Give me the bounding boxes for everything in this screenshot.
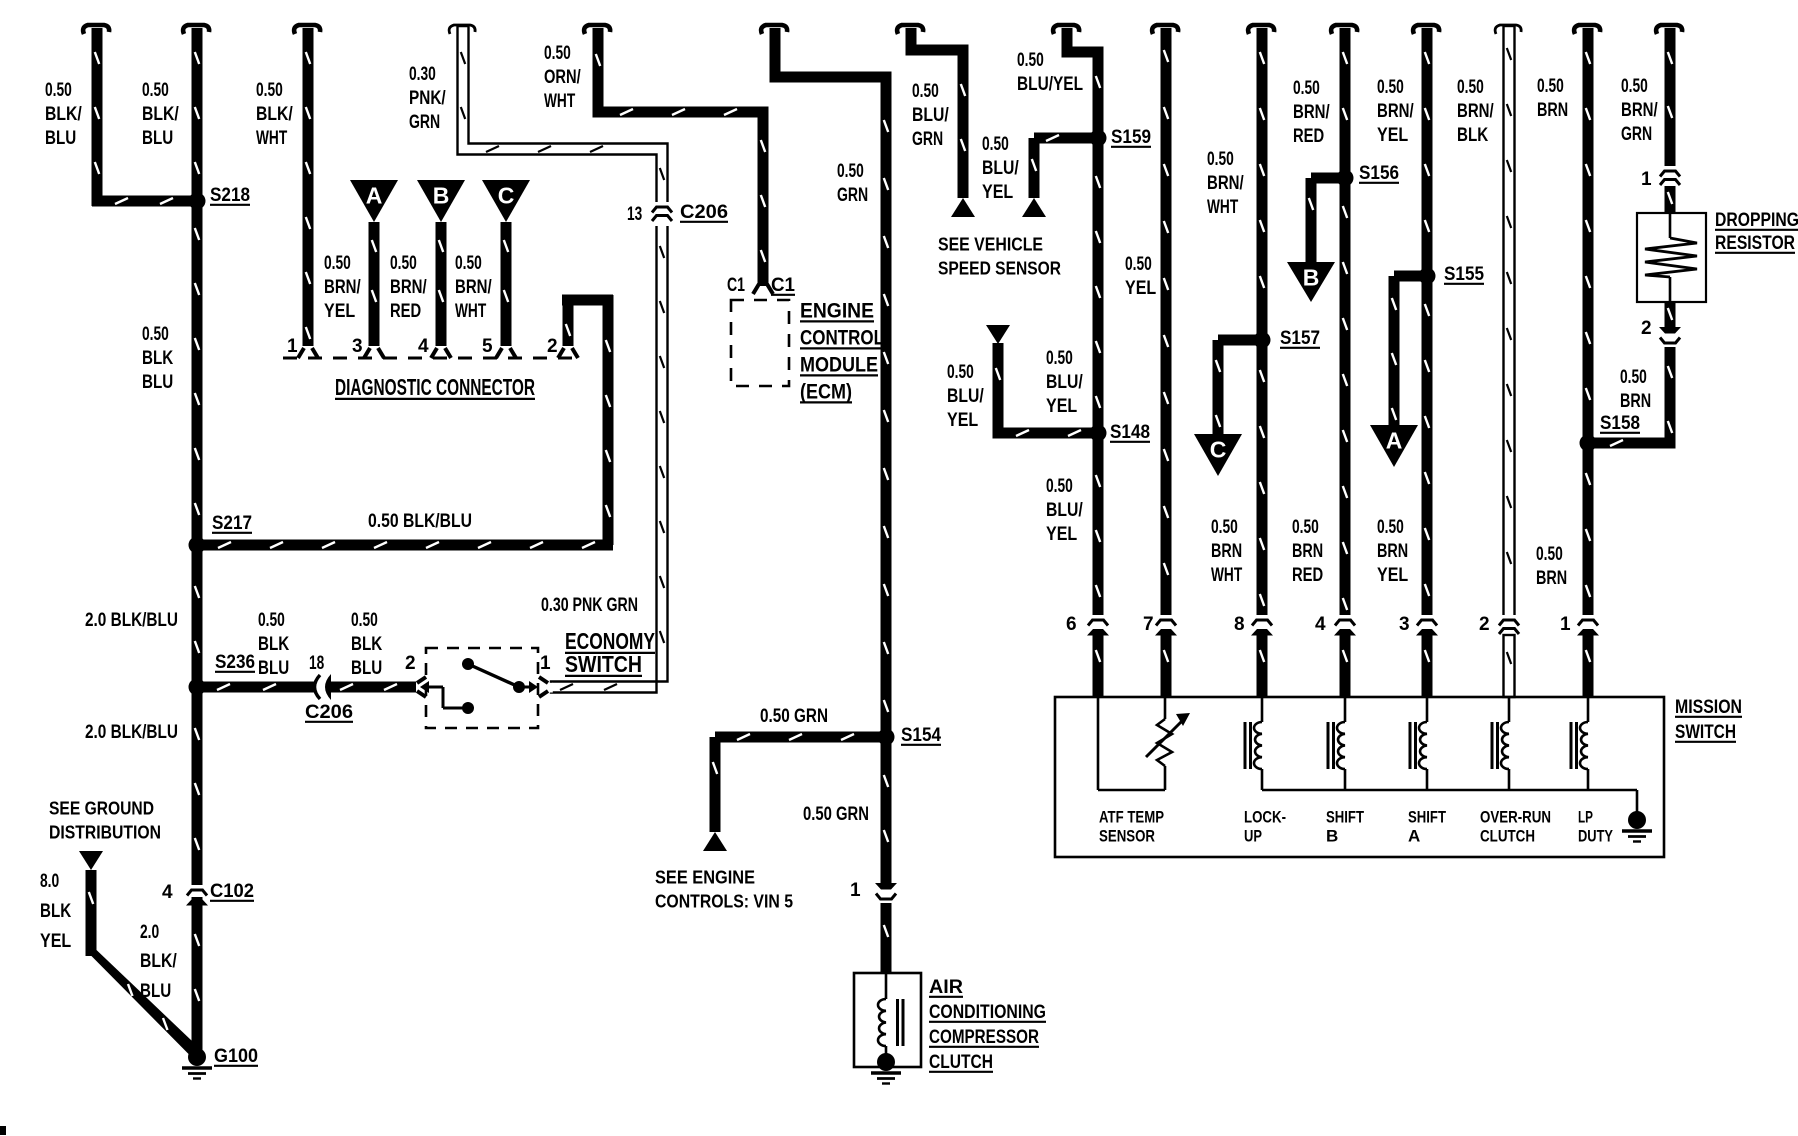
pin labels diagnostic	[287, 336, 558, 357]
wire 0.50 BRN/RED pin 8	[1248, 25, 1274, 620]
splice S148	[1090, 422, 1151, 443]
wire 0.50 BRN/WHT pin 7	[1152, 25, 1178, 620]
over-run clutch solenoid	[1492, 697, 1509, 790]
svg-text:BRN: BRN	[1377, 541, 1408, 562]
svg-text:0.50 GRN: 0.50 GRN	[760, 706, 828, 727]
svg-text:BRN: BRN	[1536, 568, 1567, 589]
wire diagnostic pin 3 stem	[364, 222, 384, 358]
triangle B	[417, 180, 465, 222]
svg-text:0.50 GRN: 0.50 GRN	[803, 804, 869, 825]
svg-text:WHT: WHT	[544, 91, 575, 112]
label 0.50 BLK BLU (left of C206)	[258, 610, 289, 679]
shift A solenoid	[1410, 697, 1427, 790]
svg-text:G100: G100	[214, 1046, 258, 1067]
svg-text:C1: C1	[727, 275, 745, 296]
ECM dashed box	[731, 300, 789, 386]
connector mission pin 4	[1315, 614, 1357, 636]
label 2.0 BLK/BLU (bottom)	[140, 922, 177, 1002]
wire 8.0 BLK/YEL	[86, 870, 203, 1057]
svg-text:0.50: 0.50	[1457, 77, 1484, 98]
label SEE ENGINE CONTROLS: VIN 5	[655, 866, 793, 911]
svg-text:BLU/: BLU/	[1046, 500, 1083, 521]
label SEE GROUND DISTRIBUTION	[49, 797, 161, 842]
label LOCK-UP	[1244, 807, 1286, 845]
wire riser to diagnostic pin 2	[558, 295, 614, 546]
svg-text:BRN/: BRN/	[324, 277, 361, 298]
connector mission pin 3	[1399, 614, 1439, 636]
svg-text:SEE ENGINE: SEE ENGINE	[655, 866, 755, 887]
label 0.50 BLK/BLU (far left)	[45, 80, 82, 149]
svg-text:0.50: 0.50	[1292, 517, 1319, 538]
svg-text:0.50: 0.50	[947, 362, 974, 383]
svg-text:YEL: YEL	[982, 182, 1014, 203]
svg-text:BRN: BRN	[1292, 541, 1323, 562]
svg-text:2.0: 2.0	[140, 922, 159, 943]
svg-text:RED: RED	[1293, 126, 1324, 147]
wire 0.50 BRN/BLK pin 3	[1413, 25, 1439, 620]
svg-text:SEE GROUND: SEE GROUND	[49, 797, 154, 818]
connector C1 ECM	[727, 275, 795, 296]
svg-text:WHT: WHT	[455, 301, 486, 322]
splice S156	[1337, 163, 1400, 187]
svg-text:1: 1	[1641, 169, 1652, 190]
svg-text:WHT: WHT	[1207, 197, 1238, 218]
svg-text:S155: S155	[1444, 264, 1484, 285]
svg-text:BLK/: BLK/	[256, 104, 293, 125]
svg-text:BRN/: BRN/	[1207, 173, 1244, 194]
svg-text:S157: S157	[1280, 328, 1320, 349]
svg-text:AIR: AIR	[929, 977, 963, 998]
page edge mark	[0, 1126, 6, 1135]
label 0.50 BLK BLU mid	[142, 324, 173, 393]
svg-text:0.50: 0.50	[1537, 76, 1564, 97]
svg-text:0.50: 0.50	[1211, 517, 1238, 538]
svg-text:RED: RED	[1292, 565, 1323, 586]
svg-text:RED: RED	[390, 301, 421, 322]
label ECONOMY SWITCH	[565, 628, 655, 677]
connector dropping resistor pin 2	[1641, 318, 1682, 348]
svg-text:BLU: BLU	[142, 128, 173, 149]
triangle ground distribution	[79, 851, 103, 870]
svg-text:WHT: WHT	[1211, 565, 1242, 586]
svg-text:BLK: BLK	[351, 634, 382, 655]
svg-text:BRN/: BRN/	[390, 277, 427, 298]
svg-text:0.50: 0.50	[1207, 149, 1234, 170]
svg-text:ENGINE: ENGINE	[800, 299, 874, 322]
svg-text:SENSOR: SENSOR	[1099, 826, 1155, 845]
svg-text:B: B	[1303, 265, 1320, 291]
svg-text:0.50: 0.50	[324, 253, 351, 274]
label DIAGNOSTIC CONNECTOR	[335, 374, 535, 400]
svg-text:B: B	[1326, 826, 1338, 845]
svg-text:SEE VEHICLE: SEE VEHICLE	[938, 233, 1043, 254]
label 0.50 BRN WHT (pin8 lower)	[1211, 517, 1242, 586]
svg-text:LOCK-: LOCK-	[1244, 807, 1286, 826]
svg-text:C1: C1	[771, 275, 795, 296]
lock-up solenoid	[1245, 697, 1262, 790]
label MISSION SWITCH	[1675, 697, 1742, 743]
svg-text:S154: S154	[901, 725, 941, 746]
svg-text:MODULE: MODULE	[800, 353, 878, 376]
label 0.50 BLU/GRN	[912, 81, 949, 150]
svg-text:CONTROL: CONTROL	[800, 326, 884, 349]
svg-text:0.50: 0.50	[1377, 77, 1404, 98]
wire 0.50 ORN/WHT to ECM	[584, 25, 768, 286]
svg-text:BLK: BLK	[40, 901, 71, 922]
svg-text:BLK/: BLK/	[140, 951, 177, 972]
wire 0.50 BLK/BLU S217 horizontal run	[197, 540, 613, 551]
svg-text:CLUTCH: CLUTCH	[929, 1052, 993, 1073]
svg-text:C206: C206	[305, 702, 353, 723]
connector mission pin 8	[1234, 614, 1274, 636]
svg-text:13: 13	[627, 204, 642, 225]
label 0.50 BRN (dropping)	[1620, 367, 1651, 412]
label 0.50 BLU/YEL (to pin 6)	[1046, 476, 1083, 545]
svg-text:6: 6	[1066, 614, 1077, 635]
label 0.50 BRN/RED pin4	[390, 253, 427, 322]
dropping resistor R	[1637, 213, 1706, 302]
economy switch contacts	[420, 658, 538, 714]
svg-text:BLU/: BLU/	[912, 105, 949, 126]
wire 0.50 BRN pin 1	[1574, 25, 1600, 620]
svg-text:8: 8	[1234, 614, 1245, 635]
svg-text:0.50: 0.50	[544, 43, 571, 64]
splice S155	[1419, 264, 1485, 285]
wire stub S157 to C	[1213, 335, 1263, 435]
svg-text:0.50: 0.50	[1017, 50, 1044, 71]
svg-text:S159: S159	[1111, 127, 1151, 148]
connector mission pin 1	[1560, 614, 1600, 636]
wire 0.50 BLK/BLU S236 to C206	[197, 682, 316, 693]
svg-text:GRN: GRN	[912, 129, 943, 150]
triangle see engine controls	[703, 832, 727, 851]
svg-text:BRN: BRN	[1620, 391, 1651, 412]
svg-text:BLU: BLU	[140, 981, 171, 1002]
svg-text:0.50: 0.50	[258, 610, 285, 631]
svg-text:SWITCH: SWITCH	[565, 651, 642, 677]
wire stub S155 to A	[1389, 271, 1428, 426]
label 0.50 BRN/RED (top)	[1293, 78, 1330, 147]
wire 0.50 GRN to engine controls	[710, 732, 887, 833]
svg-text:C102: C102	[210, 881, 254, 902]
connector mission pin 7	[1143, 614, 1178, 636]
svg-text:RESISTOR: RESISTOR	[1715, 233, 1795, 254]
pin 1 label economy switch	[540, 653, 551, 674]
svg-text:BLU: BLU	[142, 372, 173, 393]
ground G100	[182, 1046, 258, 1079]
svg-text:0.50: 0.50	[256, 80, 283, 101]
svg-text:4: 4	[1315, 614, 1326, 635]
label 0.50 BRN/WHT pin5	[455, 253, 492, 322]
splice S159	[1090, 127, 1152, 148]
triangle B to diagnostic	[1287, 262, 1335, 302]
svg-text:ATF TEMP: ATF TEMP	[1099, 807, 1164, 826]
label SEE VEHICLE SPEED SENSOR	[938, 233, 1061, 278]
svg-text:GRN: GRN	[409, 112, 440, 133]
svg-text:3: 3	[352, 336, 363, 357]
label LP DUTY	[1578, 807, 1613, 845]
svg-text:YEL: YEL	[1046, 524, 1078, 545]
svg-text:SPEED SENSOR: SPEED SENSOR	[938, 257, 1061, 278]
svg-text:BRN: BRN	[1537, 100, 1568, 121]
mission switch box	[1055, 697, 1664, 857]
svg-text:1: 1	[540, 653, 551, 674]
label 0.50 BRN (top)	[1537, 76, 1568, 121]
LP duty solenoid	[1571, 697, 1588, 790]
economy switch dashed box	[426, 648, 538, 728]
wire 0.50 BLK/WHT	[294, 25, 320, 358]
splice S218	[189, 185, 251, 210]
wire 0.50 BLU/YEL stub to S159	[1029, 133, 1099, 199]
svg-text:SWITCH: SWITCH	[1675, 722, 1736, 743]
svg-text:5: 5	[482, 336, 493, 357]
svg-text:CLUTCH: CLUTCH	[1480, 826, 1535, 845]
shift B solenoid	[1328, 697, 1345, 790]
svg-text:2.0 BLK/BLU: 2.0 BLK/BLU	[85, 610, 178, 631]
connector C206 pin 13	[627, 202, 728, 226]
label 0.50 BRN/YEL pin3	[324, 253, 361, 322]
svg-text:BRN/: BRN/	[1457, 101, 1494, 122]
svg-text:GRN: GRN	[837, 185, 868, 206]
label 2.0 BLK/BLU lower	[85, 722, 178, 743]
svg-text:BRN/: BRN/	[1621, 100, 1658, 121]
svg-text:0.50: 0.50	[912, 81, 939, 102]
label 0.30 PNK GRN (economy)	[541, 595, 638, 616]
label 0.50 BLK/BLU (wire bus)	[142, 80, 179, 149]
svg-text:YEL: YEL	[1046, 396, 1078, 417]
svg-text:0.50: 0.50	[1621, 76, 1648, 97]
label 0.50 GRN (upper)	[837, 161, 868, 206]
svg-text:7: 7	[1143, 614, 1154, 635]
svg-text:0.50: 0.50	[142, 80, 169, 101]
svg-text:OVER-RUN: OVER-RUN	[1480, 807, 1551, 826]
svg-text:2: 2	[405, 653, 416, 674]
svg-text:0.50: 0.50	[455, 253, 482, 274]
splice S154	[878, 725, 942, 746]
triangle C to diagnostic	[1194, 434, 1242, 476]
label 0.50 BRN/BLK (top)	[1457, 77, 1494, 146]
label 0.50 BLK/WHT	[256, 80, 293, 149]
wire outlined pin 2 over-run	[1495, 25, 1521, 618]
svg-text:0.50: 0.50	[1046, 348, 1073, 369]
wire into dropping resistor	[1665, 186, 1676, 213]
A/C clutch box	[854, 973, 921, 1067]
label 0.30 PNK/GRN	[409, 64, 446, 133]
svg-text:BLU: BLU	[351, 658, 382, 679]
svg-text:BLK/: BLK/	[45, 104, 82, 125]
label SHIFT B	[1326, 807, 1364, 845]
svg-text:0.50: 0.50	[142, 324, 169, 345]
svg-text:B: B	[433, 183, 450, 209]
svg-text:DISTRIBUTION: DISTRIBUTION	[49, 821, 161, 842]
label AIR CONDITIONING COMPRESSOR CLUTCH	[929, 977, 1046, 1073]
svg-text:YEL: YEL	[40, 931, 72, 952]
svg-text:1: 1	[850, 880, 861, 901]
wire 0.50 BLK/BLU left vertical with corner to S218	[83, 25, 197, 207]
svg-text:2: 2	[1479, 614, 1490, 635]
svg-text:A: A	[366, 183, 383, 209]
wire into mission pin 4	[1340, 634, 1351, 697]
triangle from speed sensor	[986, 325, 1010, 344]
svg-text:A: A	[1386, 428, 1403, 454]
svg-text:BLK/: BLK/	[142, 104, 179, 125]
svg-text:BLK: BLK	[142, 348, 173, 369]
svg-text:PNK/: PNK/	[409, 88, 446, 109]
splice S157	[1254, 328, 1321, 349]
pin 18 label	[309, 653, 324, 674]
label 0.50 BLU/YEL (below S159)	[1046, 348, 1083, 417]
svg-text:C: C	[1210, 437, 1227, 463]
wire diagnostic pin 4 stem	[431, 222, 451, 358]
svg-text:S158: S158	[1600, 413, 1640, 434]
label 0.50 ORN/WHT	[544, 43, 581, 112]
triangle C	[482, 180, 530, 222]
svg-text:CONTROLS: VIN 5: CONTROLS: VIN 5	[655, 890, 793, 911]
svg-text:S148: S148	[1110, 422, 1150, 443]
svg-text:(ECM): (ECM)	[800, 380, 852, 403]
svg-text:BRN/: BRN/	[1293, 102, 1330, 123]
wire into mission pin 8	[1257, 634, 1268, 697]
svg-text:BLU/: BLU/	[1046, 372, 1083, 393]
triangle A to diagnostic	[1370, 425, 1418, 467]
label 0.50 BLU/YEL (S148 stub)	[947, 362, 984, 431]
wire diagnostic pin 5 stem	[496, 222, 516, 358]
wire 0.30 PNK/GRN outlined	[449, 25, 667, 697]
svg-text:0.50: 0.50	[390, 253, 417, 274]
splice S158	[1580, 413, 1641, 452]
wire 0.50 BLK/BLU C206 to economy switch	[327, 677, 426, 697]
connector C206 pin 18	[305, 674, 353, 723]
label 0.50 BRN/WHT (pin 7)	[1207, 149, 1244, 218]
label 0.50 BLU/YEL (stub)	[982, 134, 1019, 203]
wire 0.50 BLU/GRN	[897, 25, 968, 198]
mission switch ground rail	[1262, 790, 1637, 813]
svg-text:1: 1	[287, 336, 298, 357]
label 0.50 BLK BLU (right of C206)	[351, 610, 382, 679]
label 0.50 BRN (lower)	[1536, 544, 1567, 589]
svg-text:2: 2	[1641, 318, 1652, 339]
svg-text:S218: S218	[210, 185, 250, 206]
svg-text:C206: C206	[680, 202, 728, 223]
svg-text:SHIFT: SHIFT	[1408, 807, 1446, 826]
svg-text:BLK: BLK	[1457, 125, 1488, 146]
wire outlined into mission pin 2	[1504, 635, 1515, 697]
svg-text:2.0 BLK/BLU: 2.0 BLK/BLU	[85, 722, 178, 743]
connector C102	[162, 881, 254, 906]
connector mission pin 6	[1066, 614, 1110, 636]
svg-text:DUTY: DUTY	[1578, 826, 1613, 845]
label ENGINE CONTROL MODULE (ECM)	[800, 299, 884, 403]
svg-text:S236: S236	[215, 652, 255, 673]
svg-text:BLU/YEL: BLU/YEL	[1017, 74, 1083, 95]
svg-text:8.0: 8.0	[40, 871, 59, 892]
svg-text:BLU/: BLU/	[982, 158, 1019, 179]
A/C clutch ground	[871, 1053, 901, 1084]
svg-text:YEL: YEL	[324, 301, 356, 322]
svg-text:1: 1	[1560, 614, 1571, 635]
svg-text:BLU/: BLU/	[947, 386, 984, 407]
svg-text:ORN/: ORN/	[544, 67, 581, 88]
svg-text:YEL: YEL	[1125, 278, 1157, 299]
svg-text:C: C	[498, 183, 515, 209]
svg-text:GRN: GRN	[1621, 124, 1652, 145]
svg-text:DIAGNOSTIC CONNECTOR: DIAGNOSTIC CONNECTOR	[335, 374, 535, 400]
label 0.50 BRN YEL (pin3 lower)	[1377, 517, 1409, 586]
svg-text:18: 18	[309, 653, 324, 674]
svg-text:UP: UP	[1244, 826, 1262, 845]
svg-text:2: 2	[547, 336, 558, 357]
svg-text:0.50: 0.50	[351, 610, 378, 631]
svg-text:0.50: 0.50	[45, 80, 72, 101]
wire 0.50 GRN into A/C clutch	[881, 903, 892, 973]
svg-text:0.50: 0.50	[837, 161, 864, 182]
wire 0.50 GRN vertical	[761, 25, 891, 884]
svg-text:COMPRESSOR: COMPRESSOR	[929, 1027, 1039, 1048]
svg-text:0.50: 0.50	[1377, 517, 1404, 538]
svg-text:0.50: 0.50	[1536, 544, 1563, 565]
triangle speed sensor right	[1022, 198, 1046, 217]
svg-text:0.30 PNK GRN: 0.30 PNK GRN	[541, 595, 638, 616]
triangle A	[350, 180, 398, 222]
A/C clutch coil	[878, 973, 903, 1056]
pin 2 label economy switch	[405, 653, 416, 674]
svg-text:0.50: 0.50	[1125, 254, 1152, 275]
label ATF TEMP SENSOR	[1099, 807, 1164, 845]
wire 0.50 BRN/YEL pin 4	[1331, 25, 1357, 620]
svg-text:LP: LP	[1578, 807, 1593, 826]
svg-text:BLK: BLK	[258, 634, 289, 655]
wire into mission pin 6	[1093, 634, 1104, 697]
svg-text:A: A	[1408, 826, 1420, 845]
svg-text:0.50: 0.50	[1620, 367, 1647, 388]
svg-text:3: 3	[1399, 614, 1410, 635]
svg-text:MISSION: MISSION	[1675, 697, 1742, 718]
svg-text:BLU: BLU	[258, 658, 289, 679]
wire into mission pin 7	[1161, 634, 1172, 697]
wire from dropping resistor pin 2	[1665, 302, 1676, 330]
wire 0.50 BLU/YEL stub to S148	[993, 343, 1099, 439]
svg-text:SHIFT: SHIFT	[1326, 807, 1364, 826]
ATF temp sensor	[1098, 697, 1190, 790]
splice S236	[189, 652, 256, 696]
svg-text:0.50 BLK/BLU: 0.50 BLK/BLU	[368, 511, 472, 532]
label 0.50 BRN/GRN	[1621, 76, 1658, 145]
svg-text:4: 4	[418, 336, 429, 357]
svg-text:0.30: 0.30	[409, 64, 436, 85]
svg-text:YEL: YEL	[947, 410, 979, 431]
wire dropping resistor to S158	[1588, 347, 1676, 449]
wire into mission pin 3	[1422, 634, 1433, 697]
label 0.50 BRN/YEL (top)	[1377, 77, 1414, 146]
svg-text:WHT: WHT	[256, 128, 287, 149]
label 0.50 GRN (branch)	[760, 706, 828, 727]
svg-text:0.50: 0.50	[1293, 78, 1320, 99]
svg-text:CONDITIONING: CONDITIONING	[929, 1002, 1046, 1023]
wire into mission pin 1	[1583, 634, 1594, 697]
connector pin 1 A/C clutch	[850, 880, 898, 904]
svg-text:S156: S156	[1359, 163, 1399, 184]
svg-text:BLU: BLU	[45, 128, 76, 149]
connector dropping resistor pin 1	[1641, 166, 1682, 190]
svg-text:4: 4	[162, 882, 173, 903]
label 0.50 YEL	[1125, 254, 1157, 299]
wire 0.50 BLK/BLU main vertical bus x197	[183, 25, 209, 1055]
wire 0.50 BRN/GRN	[1656, 25, 1682, 168]
svg-text:0.50: 0.50	[982, 134, 1009, 155]
svg-text:YEL: YEL	[1377, 565, 1409, 586]
splice S217	[189, 513, 253, 554]
wire stub S156 to B	[1306, 173, 1346, 263]
